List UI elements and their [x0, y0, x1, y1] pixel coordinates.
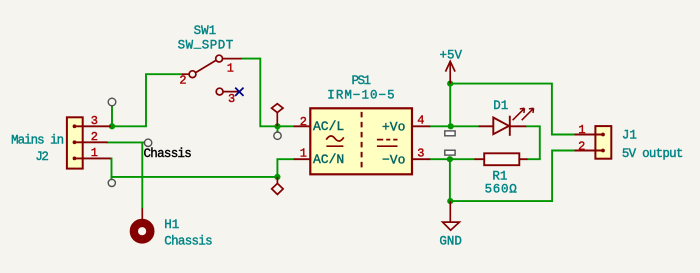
svg-text:GND: GND — [439, 235, 462, 249]
svg-text:Chassis: Chassis — [144, 147, 192, 161]
svg-text:4: 4 — [417, 114, 424, 128]
svg-text:J2: J2 — [35, 150, 48, 164]
svg-text:AC/L: AC/L — [313, 119, 344, 134]
svg-text:1: 1 — [300, 147, 307, 161]
svg-text:R1: R1 — [492, 170, 507, 184]
svg-text:−Vo: −Vo — [382, 153, 405, 168]
svg-text:2: 2 — [578, 139, 585, 153]
svg-text:1: 1 — [227, 61, 234, 75]
svg-text:3: 3 — [228, 92, 235, 106]
svg-text:2: 2 — [300, 115, 307, 129]
svg-text:3: 3 — [417, 146, 424, 160]
svg-text:H1: H1 — [164, 218, 179, 232]
svg-text:PS1: PS1 — [351, 74, 370, 88]
svg-text:J1: J1 — [622, 129, 637, 143]
svg-text:3: 3 — [91, 114, 98, 128]
svg-text:IRM−10−5: IRM−10−5 — [327, 89, 395, 103]
svg-text:1: 1 — [91, 146, 98, 160]
svg-text:SW_SPDT: SW_SPDT — [178, 37, 234, 53]
svg-text:560Ω: 560Ω — [485, 183, 518, 197]
svg-text:D1: D1 — [493, 99, 508, 113]
svg-text:AC/N: AC/N — [313, 152, 344, 167]
svg-text:2: 2 — [179, 74, 186, 88]
svg-text:Mains in: Mains in — [11, 133, 64, 147]
svg-text:+5V: +5V — [439, 48, 462, 62]
svg-text:1: 1 — [578, 123, 585, 137]
svg-text:2: 2 — [91, 130, 98, 144]
svg-text:5V output: 5V output — [622, 147, 683, 161]
svg-text:+Vo: +Vo — [382, 120, 405, 135]
svg-text:Chassis: Chassis — [164, 235, 212, 249]
